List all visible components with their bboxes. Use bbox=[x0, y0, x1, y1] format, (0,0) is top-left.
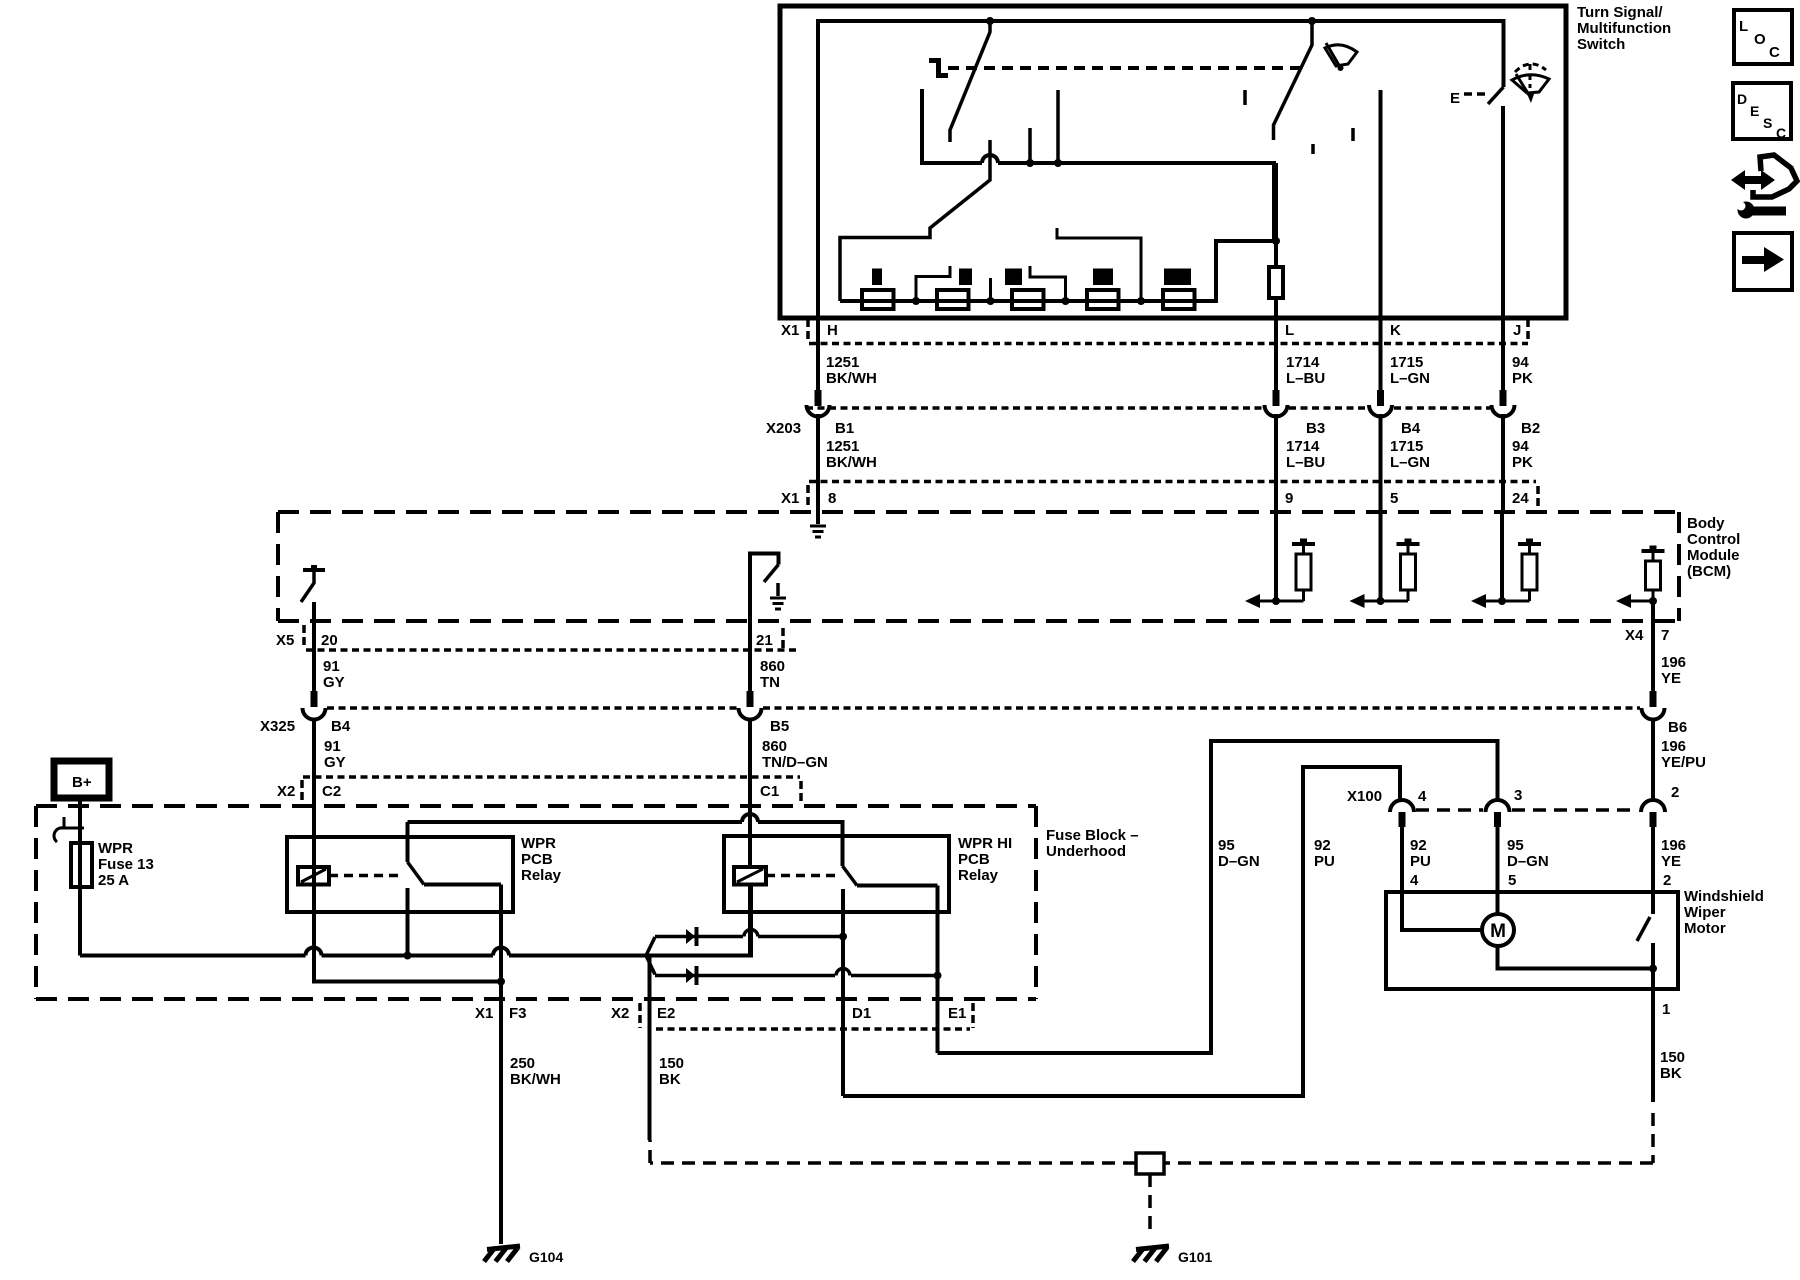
svg-text:C: C bbox=[1769, 44, 1780, 61]
svg-text:C1: C1 bbox=[760, 783, 779, 800]
svg-text:91: 91 bbox=[323, 658, 340, 675]
svg-text:B6: B6 bbox=[1668, 719, 1687, 736]
X100 row dashes bbox=[1416, 808, 1483, 812]
relay 1 coil return path bbox=[314, 885, 501, 982]
svg-text:B2: B2 bbox=[1521, 420, 1540, 437]
BCM wiper park switch to ground (pin 21) bbox=[750, 554, 779, 622]
svg-text:1: 1 bbox=[1662, 1001, 1670, 1018]
svg-text:94: 94 bbox=[1512, 354, 1529, 371]
svg-text:X2: X2 bbox=[611, 1005, 629, 1022]
wire 860 TN/D-GN to C1 bbox=[748, 720, 752, 868]
connector X1 row line (BCM side) bbox=[809, 480, 1536, 484]
relay 1 coil bbox=[298, 867, 329, 885]
node: F3 junction bbox=[497, 978, 505, 986]
fused feed bus bbox=[80, 885, 751, 956]
svg-text:2: 2 bbox=[1663, 872, 1671, 889]
park switch bbox=[1651, 827, 1655, 914]
J separator bbox=[1526, 319, 1530, 341]
wiper mode switch blade (from top bus) bbox=[950, 21, 990, 142]
position tick c bbox=[1351, 128, 1355, 141]
wiper common bracket and bus to L column bbox=[922, 89, 1274, 241]
svg-text:92: 92 bbox=[1314, 837, 1331, 854]
junction node (col 1276) bbox=[1272, 597, 1280, 605]
svg-text:YE: YE bbox=[1661, 670, 1681, 687]
svg-text:TN: TN bbox=[760, 674, 780, 691]
BCM wiper on/off switch (pin 20) bbox=[303, 568, 325, 572]
wire 196 YE segment bbox=[1651, 621, 1655, 691]
connector X203 row line bbox=[806, 406, 1263, 410]
connector X203 terminal L/B3 bbox=[1265, 405, 1288, 417]
X1 separator bbox=[806, 319, 810, 341]
wiper icon (plain) bbox=[1325, 45, 1357, 66]
svg-text:5: 5 bbox=[1508, 872, 1516, 889]
contact stub bbox=[1056, 90, 1060, 163]
svg-text:196: 196 bbox=[1661, 837, 1686, 854]
wire 196 YE/PU to X100 bbox=[1651, 720, 1655, 801]
WPR Fuse 13 25A bbox=[71, 843, 92, 887]
junction node (col 1502) bbox=[1498, 597, 1506, 605]
svg-text:Fuse 13: Fuse 13 bbox=[98, 856, 154, 873]
wire 9 into BCM bbox=[1274, 512, 1278, 601]
node: park switch common bbox=[1649, 965, 1657, 973]
ladder node bbox=[912, 297, 920, 305]
wire 860 TN segment bbox=[748, 621, 752, 691]
dashed link to E bbox=[1464, 92, 1486, 96]
svg-text:Motor: Motor bbox=[1684, 920, 1726, 937]
washer switch (E) blade bbox=[1488, 87, 1504, 104]
shared ground path (dashed) bbox=[650, 1113, 1653, 1163]
contact stub bbox=[1028, 128, 1032, 163]
svg-text:YE/PU: YE/PU bbox=[1661, 754, 1706, 771]
connector X100 terminal 2 bbox=[1641, 800, 1665, 812]
switch contact pad 4 bbox=[1093, 269, 1113, 286]
relay 2 NC stub to D1 bbox=[841, 889, 845, 1096]
svg-text:D: D bbox=[1737, 91, 1747, 107]
svg-text:1251: 1251 bbox=[826, 438, 859, 455]
connector X325 terminal B5 bbox=[747, 691, 754, 707]
svg-text:PU: PU bbox=[1314, 853, 1335, 870]
svg-text:B4: B4 bbox=[331, 718, 351, 735]
svg-text:1714: 1714 bbox=[1286, 438, 1320, 455]
X1 separator bbox=[806, 485, 810, 507]
wire 5 into BCM bbox=[1379, 512, 1383, 601]
node: relay 1 common feed bbox=[404, 952, 412, 960]
svg-text:PCB: PCB bbox=[521, 851, 553, 868]
svg-text:95: 95 bbox=[1218, 837, 1235, 854]
ground for pin 8 (inside BCM) bbox=[816, 512, 820, 524]
WPR PCB Relay box bbox=[287, 837, 513, 912]
wire segment col 1503 bbox=[1501, 414, 1505, 512]
ladder resistor R2 bbox=[937, 290, 969, 309]
relay 2 switch bbox=[843, 866, 858, 886]
svg-text:BK/WH: BK/WH bbox=[826, 454, 877, 471]
ladder resistor R3 bbox=[1012, 290, 1044, 309]
svg-text:95: 95 bbox=[1507, 837, 1524, 854]
svg-text:7: 7 bbox=[1661, 627, 1669, 644]
wire segment col 1380.5 bbox=[1379, 414, 1383, 512]
L column resistor (park feed) bbox=[1274, 163, 1278, 318]
node on wiper bus bbox=[1026, 159, 1034, 167]
svg-text:860: 860 bbox=[762, 738, 787, 755]
relay 1 NC stub to feed bbox=[406, 888, 410, 956]
svg-text:4: 4 bbox=[1410, 872, 1419, 889]
connector X203 terminal K/B4 bbox=[1369, 405, 1392, 417]
svg-text:WPR: WPR bbox=[521, 835, 556, 852]
svg-text:94: 94 bbox=[1512, 438, 1529, 455]
X4 driver (pin 7) bbox=[1642, 549, 1665, 553]
Windshield Wiper Motor box bbox=[1386, 892, 1678, 989]
ladder tap 1 bbox=[916, 266, 950, 301]
svg-text:PU: PU bbox=[1410, 853, 1431, 870]
node: E1 junction bbox=[934, 972, 942, 980]
wire segment col 818 bbox=[816, 318, 820, 390]
ground branch E2 bbox=[648, 957, 652, 1140]
svg-text:1251: 1251 bbox=[826, 354, 859, 371]
connector X1 row line bbox=[809, 342, 1528, 346]
svg-text:92: 92 bbox=[1410, 837, 1427, 854]
connector X325 terminal B6 bbox=[1650, 691, 1657, 707]
Body Control Module (BCM) dashed box bbox=[278, 512, 1679, 621]
svg-text:H: H bbox=[827, 322, 838, 339]
upper suppression diode line bbox=[646, 930, 843, 956]
wire segment col 1276 bbox=[1274, 318, 1278, 390]
svg-text:Fuse Block –: Fuse Block – bbox=[1046, 827, 1139, 844]
svg-text:1715: 1715 bbox=[1390, 438, 1423, 455]
svg-text:1714: 1714 bbox=[1286, 354, 1320, 371]
B+ terminal bbox=[54, 761, 109, 798]
svg-text:Relay: Relay bbox=[521, 867, 562, 884]
switch contact pad 1 bbox=[872, 269, 882, 286]
svg-text:24: 24 bbox=[1512, 490, 1529, 507]
X5 separator bbox=[302, 625, 306, 647]
21 separator bbox=[781, 628, 785, 650]
dashed drop to G101 bbox=[1148, 1174, 1152, 1237]
svg-text:BK/WH: BK/WH bbox=[826, 370, 877, 387]
splice box bbox=[1136, 1153, 1164, 1174]
ladder resistor R1 bbox=[862, 290, 894, 309]
connector X203 terminal J/B2 bbox=[1492, 405, 1515, 417]
svg-text:2: 2 bbox=[1671, 784, 1679, 801]
svg-text:L: L bbox=[1739, 18, 1748, 35]
wire segment col 1276 bbox=[1274, 414, 1278, 512]
wire 91 GY to C2 bbox=[312, 720, 316, 868]
BCM pull-up resistor (col 1380.5) bbox=[1407, 544, 1410, 554]
svg-text:YE: YE bbox=[1661, 853, 1681, 870]
svg-text:X4: X4 bbox=[1625, 627, 1644, 644]
svg-text:150: 150 bbox=[1660, 1049, 1685, 1066]
svg-text:G104: G104 bbox=[529, 1249, 563, 1265]
wiring navigation icon (arrows and wrench) bbox=[1741, 176, 1766, 184]
svg-text:B1: B1 bbox=[835, 420, 854, 437]
svg-text:PK: PK bbox=[1512, 454, 1533, 471]
E1 separator bbox=[971, 1003, 975, 1028]
switch inner bus (top and left) bbox=[818, 21, 1504, 318]
svg-text:X1: X1 bbox=[475, 1005, 493, 1022]
svg-text:91: 91 bbox=[324, 738, 341, 755]
wire segment col 1503 bbox=[1501, 318, 1505, 390]
WPR HI PCB Relay box bbox=[724, 836, 949, 912]
lower suppression diode line bbox=[646, 956, 938, 976]
svg-text:L–GN: L–GN bbox=[1390, 370, 1430, 387]
washer wiper icon bbox=[1512, 75, 1549, 93]
ladder resistor R4 bbox=[1087, 290, 1119, 309]
svg-text:C: C bbox=[1776, 125, 1786, 141]
BCM output arrow (col 1502) bbox=[1485, 600, 1530, 603]
svg-text:E1: E1 bbox=[948, 1005, 966, 1022]
svg-text:Wiper: Wiper bbox=[1684, 904, 1726, 921]
svg-text:(BCM): (BCM) bbox=[1687, 563, 1731, 580]
svg-text:C2: C2 bbox=[322, 783, 341, 800]
wire pin 5 into motor bbox=[1496, 827, 1500, 914]
ladder resistor R5 bbox=[1163, 290, 1195, 309]
svg-text:150: 150 bbox=[659, 1055, 684, 1072]
connector X203 terminal H/B1 bbox=[807, 405, 830, 417]
BCM output arrow (col 1276) bbox=[1259, 600, 1304, 603]
svg-text:WPR: WPR bbox=[98, 840, 133, 857]
svg-text:E: E bbox=[1450, 90, 1460, 107]
svg-text:Module: Module bbox=[1687, 547, 1740, 564]
svg-text:E: E bbox=[1750, 103, 1759, 119]
svg-text:B5: B5 bbox=[770, 718, 789, 735]
ladder tap 4 bbox=[1057, 228, 1141, 301]
svg-text:G101: G101 bbox=[1178, 1249, 1212, 1265]
node at L column bbox=[1272, 237, 1280, 245]
position tick a bbox=[1243, 90, 1247, 105]
svg-text:Switch: Switch bbox=[1577, 36, 1625, 53]
svg-text:196: 196 bbox=[1661, 738, 1686, 755]
svg-text:L: L bbox=[1285, 322, 1294, 339]
svg-text:860: 860 bbox=[760, 658, 785, 675]
wire 24 into BCM bbox=[1500, 512, 1504, 601]
svg-text:BK: BK bbox=[659, 1071, 681, 1088]
C1 separator bbox=[799, 781, 803, 803]
relay 2 output to E1 bbox=[936, 886, 940, 1054]
relay 2 coil-contact dashed link bbox=[766, 874, 838, 878]
switch contact pad 3 bbox=[1005, 269, 1022, 286]
svg-text:Control: Control bbox=[1687, 531, 1740, 548]
svg-text:Relay: Relay bbox=[958, 867, 999, 884]
BCM pull-up resistor (col 1276) bbox=[1302, 544, 1305, 554]
ladder node bbox=[987, 297, 995, 305]
svg-text:Turn Signal/: Turn Signal/ bbox=[1577, 4, 1663, 21]
svg-text:K: K bbox=[1390, 322, 1401, 339]
switch contact pad 5 bbox=[1164, 269, 1191, 286]
svg-text:PK: PK bbox=[1512, 370, 1533, 387]
fuse clip bbox=[54, 817, 84, 842]
resistor ladder baseline bbox=[840, 241, 1276, 301]
wire 91 GY segment bbox=[312, 621, 316, 691]
svg-text:21: 21 bbox=[756, 632, 773, 649]
svg-text:L–BU: L–BU bbox=[1286, 370, 1325, 387]
svg-text:TN/D–GN: TN/D–GN bbox=[762, 754, 828, 771]
svg-text:20: 20 bbox=[321, 632, 338, 649]
BCM driver internal supply bar (col 1276) bbox=[1292, 542, 1315, 546]
X2 separator bbox=[638, 1003, 642, 1028]
svg-text:250: 250 bbox=[510, 1055, 535, 1072]
DESC icon box bbox=[1733, 83, 1791, 139]
pin row line bbox=[656, 1027, 970, 1031]
svg-text:PCB: PCB bbox=[958, 851, 990, 868]
svg-text:X1: X1 bbox=[781, 322, 799, 339]
svg-text:E2: E2 bbox=[657, 1005, 675, 1022]
svg-text:Body: Body bbox=[1687, 515, 1725, 532]
BCM pull-up resistor (col 1502) bbox=[1528, 544, 1531, 554]
node: D1 junction bbox=[839, 933, 847, 941]
wire 150 BK from motor bbox=[1651, 989, 1655, 1102]
X2 row line bbox=[303, 775, 800, 779]
J column wire bbox=[1501, 106, 1505, 318]
svg-text:X203: X203 bbox=[766, 420, 801, 437]
svg-text:B3: B3 bbox=[1306, 420, 1325, 437]
wire 95 D-GN loop (E1 to motor pin 3) bbox=[938, 741, 1498, 1053]
svg-text:S: S bbox=[1763, 115, 1772, 131]
ground G101 bbox=[1133, 1246, 1169, 1262]
svg-text:X2: X2 bbox=[277, 783, 295, 800]
svg-text:Underhood: Underhood bbox=[1046, 843, 1126, 860]
svg-text:J: J bbox=[1513, 322, 1521, 339]
motor to park switch bbox=[1498, 946, 1654, 969]
wire segment col 1380.5 bbox=[1379, 318, 1383, 390]
svg-text:L–BU: L–BU bbox=[1286, 454, 1325, 471]
relay poles link bbox=[408, 814, 843, 866]
svg-text:O: O bbox=[1754, 31, 1766, 48]
wire from B+ bbox=[78, 798, 82, 843]
relay 2 coil bbox=[734, 867, 766, 885]
ladder node bbox=[1062, 297, 1070, 305]
switch contact pad 2 bbox=[959, 269, 972, 286]
lower diode D bbox=[686, 968, 695, 983]
svg-text:L–GN: L–GN bbox=[1390, 454, 1430, 471]
connector X100 terminal 3 bbox=[1486, 800, 1510, 812]
svg-text:D–GN: D–GN bbox=[1218, 853, 1260, 870]
BCM driver internal supply bar (col 1380.5) bbox=[1397, 542, 1420, 546]
wire segment col 818 bbox=[816, 414, 820, 512]
position tick b bbox=[1311, 144, 1315, 154]
next-page arrow icon box bbox=[1734, 233, 1792, 290]
upper diode D bbox=[686, 929, 695, 944]
node: wiper feed junction bbox=[986, 17, 994, 25]
svg-text:196: 196 bbox=[1661, 654, 1686, 671]
svg-text:5: 5 bbox=[1390, 490, 1398, 507]
detent step symbol bbox=[929, 58, 948, 78]
relay 1 switch bbox=[406, 822, 410, 862]
ground G104 bbox=[484, 1246, 520, 1262]
BCM output arrow (col 1380.5) bbox=[1364, 600, 1409, 603]
24 separator bbox=[1536, 486, 1540, 510]
svg-text:Windshield: Windshield bbox=[1684, 888, 1764, 905]
wire pin 4 into motor bbox=[1402, 827, 1482, 930]
node on wiper bus bbox=[1054, 159, 1062, 167]
Turn Signal/Multifunction Switch outer box bbox=[780, 6, 1566, 318]
svg-text:F3: F3 bbox=[509, 1005, 527, 1022]
svg-text:1715: 1715 bbox=[1390, 354, 1423, 371]
svg-text:4: 4 bbox=[1418, 788, 1427, 805]
X5 row line bbox=[306, 648, 800, 652]
Fuse Block - Underhood dashed box bbox=[36, 806, 1036, 999]
washer switch blade bbox=[1274, 21, 1313, 140]
svg-text:D–GN: D–GN bbox=[1507, 853, 1549, 870]
K column wire bbox=[1379, 90, 1383, 318]
svg-text:BK: BK bbox=[1660, 1065, 1682, 1082]
svg-text:X1: X1 bbox=[781, 490, 799, 507]
svg-text:9: 9 bbox=[1285, 490, 1293, 507]
ladder node bbox=[1137, 297, 1145, 305]
svg-text:X100: X100 bbox=[1347, 788, 1382, 805]
svg-text:B+: B+ bbox=[72, 774, 92, 791]
svg-text:D1: D1 bbox=[852, 1005, 871, 1022]
connector X325 row line bbox=[327, 706, 737, 710]
connector X325 terminal B4 bbox=[311, 691, 318, 707]
BCM driver internal supply bar (col 1502) bbox=[1518, 542, 1541, 546]
svg-text:8: 8 bbox=[828, 490, 836, 507]
wire 250 BK/WH to G104 bbox=[499, 982, 503, 1245]
X2 separator bbox=[300, 780, 304, 801]
svg-text:BK/WH: BK/WH bbox=[510, 1071, 561, 1088]
wire 92 PU loop (D1 to motor pin 4) bbox=[843, 767, 1400, 1096]
ladder tap 2 bbox=[989, 278, 992, 301]
wiper arm to resistor ladder bbox=[840, 140, 990, 301]
svg-text:WPR HI: WPR HI bbox=[958, 835, 1012, 852]
junction node (col 1380.5) bbox=[1377, 597, 1385, 605]
wire 7 out of BCM bbox=[1651, 601, 1655, 621]
svg-text:Multifunction: Multifunction bbox=[1577, 20, 1671, 37]
dashed mechanical link (wiper switch) bbox=[948, 66, 1302, 70]
svg-text:M: M bbox=[1490, 921, 1506, 942]
relay 1 output to F3 bbox=[499, 885, 503, 982]
relay 1 coil-contact dashed link bbox=[329, 874, 404, 878]
motor M bbox=[1482, 914, 1514, 946]
connector X100 terminal 4 bbox=[1390, 800, 1414, 812]
node: washer feed junction bbox=[1308, 17, 1316, 25]
ladder tap 3 bbox=[1030, 266, 1066, 301]
svg-text:B4: B4 bbox=[1401, 420, 1421, 437]
LOC icon box bbox=[1734, 10, 1792, 64]
svg-text:X325: X325 bbox=[260, 718, 295, 735]
svg-text:3: 3 bbox=[1514, 787, 1522, 804]
svg-text:X5: X5 bbox=[276, 632, 294, 649]
svg-text:GY: GY bbox=[323, 674, 345, 691]
svg-text:25 A: 25 A bbox=[98, 872, 129, 889]
svg-text:GY: GY bbox=[324, 754, 346, 771]
